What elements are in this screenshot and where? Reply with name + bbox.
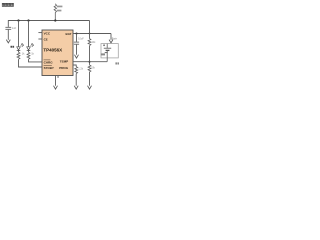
svg-text:STDBY: STDBY <box>44 66 54 70</box>
resistor R3 divider top <box>88 39 91 46</box>
resistor R4 NTC <box>88 65 91 72</box>
svg-text:TEMP: TEMP <box>60 59 68 63</box>
label: D1 red <box>11 46 13 48</box>
wire: VCC pin stub <box>38 32 42 34</box>
wire: LED2 branch vertical <box>28 21 30 47</box>
svg-text:TP4056X: TP4056X <box>43 47 62 52</box>
wire: input drop zigzag at top <box>54 4 56 21</box>
ground arrow under Rprog <box>74 86 78 89</box>
svg-text:VCC: VCC <box>44 31 51 35</box>
wire: R1 to STDBY pin <box>19 59 43 67</box>
label: battery voltage text (blur) <box>101 53 105 55</box>
node A: rail junction LED branch 1 <box>17 19 19 21</box>
title text 典型应用 (rendered as glyph blobs) <box>2 3 13 6</box>
LED D1 <box>17 47 21 50</box>
resistor R5 Rprog <box>75 67 78 74</box>
svg-text:1uF: 1uF <box>12 26 17 30</box>
wire: rail corner down to divider <box>89 21 91 39</box>
LED D2 <box>27 47 31 50</box>
op-amp U1 TP4056X charger IC <box>42 30 73 76</box>
svg-text:1.2k: 1.2k <box>78 68 83 71</box>
wire: R3 to TEMP node <box>89 46 91 65</box>
label: text at bottom right (blur) <box>115 62 117 64</box>
wire: top VCC rail <box>8 20 89 22</box>
battery BT1 box <box>101 44 118 58</box>
wire: TEMP line <box>73 61 107 63</box>
wire: PROG stub <box>73 65 76 67</box>
label: input voltage text (blur) <box>57 6 63 8</box>
capacitor C2 output cap <box>76 34 78 42</box>
svg-text:BAT: BAT <box>66 32 72 36</box>
svg-text:CE: CE <box>44 38 48 42</box>
label: battery plus <box>103 44 105 46</box>
capacitor C1 input cap <box>7 20 9 27</box>
wire: C2 to ground <box>76 45 78 55</box>
ground arrow under C2 <box>75 55 79 58</box>
node B: rail junction LED branch 2 <box>27 19 29 21</box>
wire: R4 to ground <box>89 72 91 86</box>
battery cell symbol <box>106 44 108 48</box>
svg-text:10uF: 10uF <box>78 37 84 40</box>
wire: CE pin stub <box>38 38 42 40</box>
ground arrow under C1 <box>6 40 10 43</box>
wire: to battery with arrow <box>110 34 112 40</box>
wire: R2 to CHRG pin <box>29 59 43 62</box>
wire: LED1 branch vertical <box>18 21 20 47</box>
node: divider crossing <box>89 33 91 35</box>
wire: battery negative down and left <box>106 50 108 61</box>
svg-text:PROG: PROG <box>59 66 69 70</box>
resistor R1 <box>18 50 20 52</box>
wire: Rprog to ground <box>75 74 77 86</box>
resistor R2 <box>28 50 30 52</box>
node: TEMP junction <box>89 61 91 63</box>
wire: GND pin down <box>55 76 57 86</box>
node: BAT cap junction <box>76 33 78 35</box>
ground arrow under R4 <box>88 86 92 89</box>
wire: C1 to ground <box>7 30 9 40</box>
wire: BAT output <box>73 33 111 35</box>
svg-text:Bat+: Bat+ <box>112 37 118 40</box>
svg-text:CHRG: CHRG <box>44 60 54 64</box>
label: GND pin mark <box>57 76 59 78</box>
ground arrow under IC <box>54 86 58 89</box>
node: input joins rail <box>54 19 56 21</box>
